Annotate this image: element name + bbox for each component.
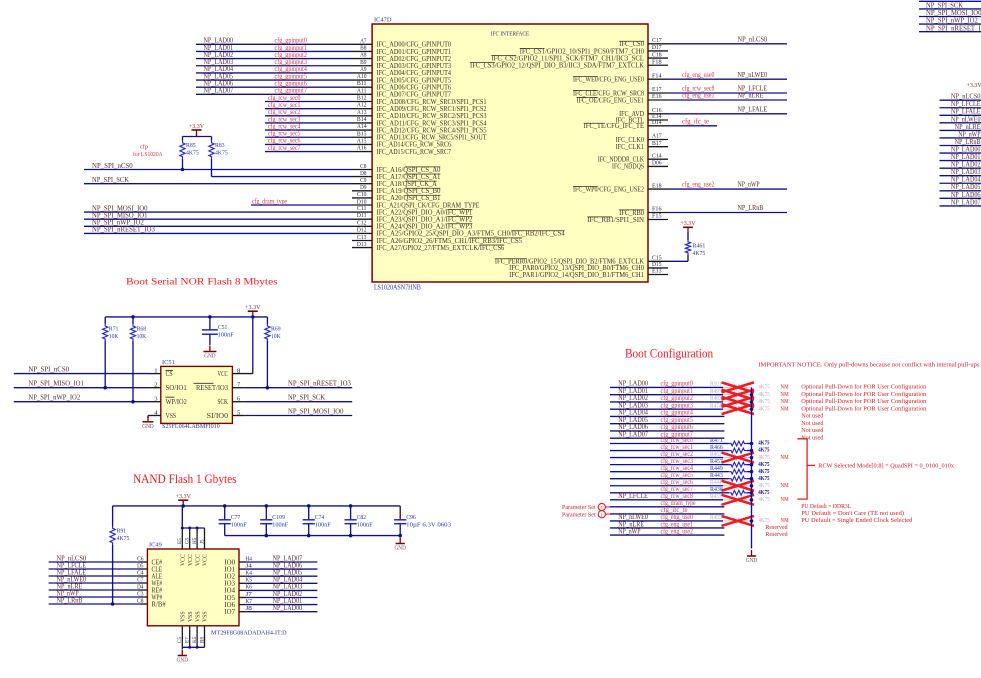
wire net NP_SPI_nWP_IO2 to IC51 pin 3 (junction R68) [14,341,161,404]
boot-config row net NP_nWP cfg_eng_use2 (Reserved) [610,527,788,538]
svg-text:Parameter Set: Parameter Set [562,504,596,511]
svg-text:10K: 10K [271,333,281,340]
wire net NP_LFALE to IC49 pin C4 (ALE) [49,568,163,580]
svg-text:NP_LAD07: NP_LAD07 [204,87,234,95]
IC47D right pin C14 [648,152,668,159]
wire net NP_nLRE to IC49 pin D4 (RE#) [49,582,163,594]
svg-text:NP_LRnB: NP_LRnB [738,204,764,212]
svg-text:D14: D14 [652,119,662,126]
wire net NP_LAD06 from IC49 pin J4 (IO1) [224,561,317,573]
wire net cfg_rcw_sec1 to IC47D pin A12 [265,101,372,109]
power label +3.3V (far right, clipped) [967,82,981,89]
wire +3.3V rail (NOR) [105,315,267,329]
svg-text:D8: D8 [360,170,367,177]
resistor R85 4K75 [180,141,200,159]
capacitor C77 100nF [219,506,247,536]
IC47D right pin C16 net NP_LFALE [648,105,787,114]
wire R85 bottom to NP_SPI_nCS0 net with junction [181,159,185,171]
svg-text:C96: C96 [406,514,416,521]
svg-text:+3.3V: +3.3V [680,220,696,227]
svg-text:J5: J5 [199,539,205,544]
boot-config row net cfg_rcw_sec3 resistor R457 [610,457,770,468]
svg-text:K7: K7 [246,598,253,605]
pin stub IC47D C10 [352,191,372,198]
svg-text:VCC: VCC [217,370,228,378]
wire net NP_LAD03 / cfg_gpinput3 to IC47D pin B9 [196,58,372,66]
svg-text:GND: GND [746,558,758,564]
svg-text:C17: C17 [652,37,662,44]
svg-text:VSS: VSS [195,611,201,622]
capacitor C51 100nF [202,324,234,345]
svg-text:A17: A17 [652,133,662,140]
svg-text:K5: K5 [246,577,253,584]
svg-text:4K75: 4K75 [117,535,130,542]
svg-text:for LS1020A: for LS1020A [133,151,163,158]
svg-text:Boot Serial NOR Flash 8 Mbytes: Boot Serial NOR Flash 8 Mbytes [126,277,278,288]
pull-down bus wire to ground [750,387,754,548]
wire net cfg_rcw_sec0 to IC47D pin B12 [265,94,372,102]
svg-text:RESET/IO3: RESET/IO3 [196,384,228,392]
pin stub IC47D E13 [648,268,668,275]
svg-text:J8: J8 [246,605,253,612]
svg-text:VCC: VCC [195,554,201,566]
svg-text:4K75: 4K75 [758,398,770,405]
wire net NP_LAD07 from IC49 pin H4 (IO0) [224,554,317,566]
svg-text:4K75: 4K75 [758,475,770,482]
boot-config row net NP_LAD00 cfg_gpinput0 resistor R501 NM [610,380,927,393]
svg-text:B17: B17 [652,140,662,147]
svg-text:4K75: 4K75 [758,447,770,454]
svg-text:C11: C11 [357,205,367,212]
svg-text:C10: C10 [357,191,367,198]
svg-text:A9: A9 [360,66,367,73]
svg-text:NP_nLWE0: NP_nLWE0 [738,71,768,79]
svg-text:100nF: 100nF [357,521,373,528]
IC47D right pin D06 [648,160,668,167]
svg-text:A10: A10 [357,73,367,80]
IC51 pin 8 VCC wire to +3.3V column [232,317,252,375]
svg-text:R462: R462 [710,451,722,458]
svg-text:F16: F16 [652,206,662,213]
IC47D right pin names column [470,40,644,224]
wire net cfg_dram_type to IC47D pin D10 [251,197,372,205]
ground symbol at pull-down bus [746,550,758,564]
boot-config row net NP_nLRE cfg_eng_use1 (Reserved) [610,520,788,531]
wire net NP_nWP to IC49 pin C3 (WP#) [49,589,163,601]
wire R91 bottom to NP_LRnB net with junction [111,545,115,606]
svg-text:F15: F15 [652,213,662,220]
boot-config row net cfg_rcw_sec6 resistor R444 NM [610,478,789,491]
svg-text:4K75: 4K75 [758,454,770,461]
svg-text:+3.3V: +3.3V [189,123,205,130]
wire net NP_SPI_MOSI_IO0 to IC47D pin C11 [84,204,372,212]
svg-text:IMPORTANT NOTICE: Only pull-do: IMPORTANT NOTICE: Only pull-downs becaus… [758,362,979,369]
IC47D right pin E18 net NP_nWP cfg cfg_eng_use2 [648,181,787,190]
svg-text:D06: D06 [652,160,662,167]
wire net NP_SPI_MOSI_IO0 from IC51 pin 5 [232,407,352,416]
svg-text:D17: D17 [652,44,662,51]
svg-text:R461: R461 [693,242,706,249]
svg-text:IFC_NDDQS: IFC_NDDQS [612,163,644,171]
svg-text:NM: NM [780,517,788,524]
IC47D right pin C17 net NP_nLCS0 [648,35,787,44]
far-right net stack: NP_nLCS0..NP_LAD07 wires (clipped) [940,93,981,207]
wire net NP_LAD00 from IC49 pin J8 (IO7) [224,604,317,616]
svg-text:C3: C3 [137,590,144,597]
svg-text:SCK: SCK [217,398,228,406]
svg-text:IC47D: IC47D [374,17,392,24]
svg-text:C82: C82 [357,514,367,521]
svg-text:B15: B15 [357,130,367,137]
svg-text:NP_nWP: NP_nWP [618,527,640,535]
wire net NP_SPI_MISO_IO1 to IC51 pin 2 (junction R71) [14,341,161,390]
boot-config row net cfg_dram_type (PU Default = DDR3L) [610,499,851,510]
svg-text:R449: R449 [710,465,723,472]
boot-config row net cfg_ifc_te (PU Default = Don't Care) [610,506,904,517]
svg-text:IFC_PAR1/GPIO2_14/QSPI_DIO_B1/: IFC_PAR1/GPIO2_14/QSPI_DIO_B1/FTM6_CH1 [509,271,644,279]
svg-text:K5: K5 [192,636,198,643]
boot-config row net cfg_rcw_sec4 resistor R449 [610,464,770,475]
svg-text:R457: R457 [710,458,723,465]
IC IC47D LS1020A IFC interface block [372,17,648,292]
power symbol +3.3V for R461 [680,220,696,233]
power symbol +3.3V (NOR section) [245,304,261,317]
svg-text:100nF: 100nF [231,521,247,528]
svg-text:cfg_eng_use2: cfg_eng_use2 [682,181,715,189]
svg-text:100nF: 100nF [218,332,234,339]
svg-text:4K75: 4K75 [758,468,770,475]
svg-text:4K75: 4K75 [186,150,199,157]
IC51 pin names [166,370,229,420]
wire net NP_LAD04 from IC49 pin K5 (IO3) [224,576,317,588]
svg-text:VCC: VCC [188,554,194,566]
svg-text:R8: R8 [199,637,205,643]
svg-text:D9: D9 [360,184,367,191]
svg-text:GND: GND [204,353,216,360]
wire net NP_SPI_SCK to IC47D pin C9 [84,176,372,184]
svg-text:NM: NM [780,398,788,405]
IC47D right pin F16 net NP_LRnB [648,204,787,213]
svg-text:IC49: IC49 [149,542,162,549]
section title: Boot Configuration [625,347,714,361]
svg-text:cfp: cfp [140,144,148,151]
svg-text:C8: C8 [137,597,144,604]
svg-text:R85: R85 [186,142,196,149]
svg-text:cfg_eng_use0: cfg_eng_use0 [682,71,715,79]
svg-text:SI/IO0: SI/IO0 [207,412,229,420]
svg-text:R69: R69 [271,326,281,333]
section title: NAND Flash 1 Gbytes [133,472,237,486]
svg-text:4K75: 4K75 [758,482,770,489]
svg-text:VSS: VSS [188,611,194,622]
boot-config row net cfg_rcw_sec2 resistor R462 NM [610,450,789,463]
wire net NP_SPI_nRESET_IO3 to IC47D pin D12 [84,226,372,234]
boot-config row net NP_LAD04 cfg_gpinput4 [610,409,824,420]
svg-text:E13: E13 [652,268,662,275]
svg-text:Not used: Not used [801,413,824,420]
capacitor C109 100nF [260,506,288,536]
svg-text:R474: R474 [710,402,722,409]
boot-config row net NP_LAD02 cfg_gpinput2 resistor R483 NM [610,394,927,407]
svg-text:A8: A8 [360,52,367,59]
svg-text:NM: NM [780,454,788,461]
section title: Boot Serial NOR Flash 8 Mbytes [126,277,278,288]
IC47D right pin E17 net NP_LFCLE cfg cfg_rcw_sec8 [648,85,787,94]
svg-text:R444: R444 [710,479,722,486]
svg-text:H4: H4 [246,555,253,562]
svg-text:R497: R497 [710,388,722,395]
svg-text:Not used: Not used [801,427,824,434]
wire R83 bottom to IC47D pin D8 [212,159,373,177]
svg-text:NAND Flash 1 Gbytes: NAND Flash 1 Gbytes [133,472,237,486]
svg-text:NP_LFALE: NP_LFALE [738,105,768,113]
svg-text:+3.3V: +3.3V [967,82,981,89]
svg-text:4K75: 4K75 [758,517,770,524]
resistor R71 10K [103,324,119,341]
boot-config row net NP_LAD07 cfg_gpinput7 [610,430,824,441]
svg-text:C8: C8 [360,163,367,170]
IC47D right pin A17 [648,133,668,140]
IC47D right pin D17 [648,44,668,51]
svg-text:C74: C74 [315,514,325,521]
svg-text:IFC INTERFACE: IFC INTERFACE [491,31,529,38]
wire net NP_SPI_nWP_IO2 to IC47D pin C12 [84,219,372,227]
svg-text:NP_SPI_nWP_IO2: NP_SPI_nWP_IO2 [28,394,80,402]
svg-text:4K75: 4K75 [758,391,770,398]
svg-text:F18: F18 [652,58,662,65]
wire net cfg_rcw_sec2 to IC47D pin A13 [265,108,372,116]
svg-text:S25FL064LABMFI010: S25FL064LABMFI010 [162,423,220,430]
svg-text:Reserved: Reserved [765,524,788,531]
IC49 VSS bottom pin stubs to ground [177,626,206,664]
svg-text:RCW Selected Mode[0:8] = QuadS: RCW Selected Mode[0:8] = QuadSPI = 0_010… [818,462,954,469]
svg-text:4K75: 4K75 [215,150,228,157]
IC47D bottom-right pin names (IFC_PERR0, IFC_PAR0, IFC_PAR1) [495,258,645,279]
resistor R91 4K75 [110,506,130,545]
svg-text:R483: R483 [710,395,722,402]
IC47D left pin names column (IFC_A16..IFC_A27) [377,166,566,252]
svg-text:R438: R438 [710,486,723,493]
svg-text:Optional Pull-Down for POR Use: Optional Pull-Down for POR User Configur… [801,398,927,405]
svg-text:NP_LAD00: NP_LAD00 [273,604,303,612]
IC47D right pin F15 [648,213,668,220]
wire +3.3V rail (NAND) [113,504,401,508]
svg-text:G5: G5 [185,537,191,544]
IC47D right pin F18 [648,58,668,65]
wire net NP_LFCLE to IC49 pin D5 (CLE) [49,561,163,573]
svg-text:A11: A11 [357,87,367,94]
IC47D right pin D14 cfg cfg_ifc_te [648,117,717,126]
IC51 pin 4 VSS to ground [142,409,161,430]
svg-text:4K75: 4K75 [758,461,770,468]
svg-text:A13: A13 [357,109,367,116]
IC49 VSS pin names (rotated) [181,611,209,622]
Parameter Set callout 1 (cfg_dram_type) [562,503,610,511]
wire net NP_LAD07 / cfg_gpinput7 to IC47D pin A11 [196,87,372,95]
wire net cfg_rcw_sec5 to IC47D pin B15 [265,130,372,138]
svg-text:WP/IO2: WP/IO2 [166,398,188,406]
power symbol +3.3V (NAND section) [176,493,192,506]
svg-text:10K: 10K [137,333,147,340]
svg-text:NP_SPI_nCS0: NP_SPI_nCS0 [28,366,69,374]
svg-text:1: 1 [601,505,604,510]
svg-text:C7: C7 [137,576,144,583]
wire net NP_LAD02 / cfg_gpinput2 to IC47D pin A8 [196,51,372,59]
svg-text:4K75: 4K75 [758,496,770,503]
IC47D right pin E16 net NP_nLRE cfg cfg_eng_use1 [648,92,787,101]
boot-config row net NP_LAD03 cfg_gpinput3 resistor R474 NM [610,401,927,414]
svg-text:SO/IO1: SO/IO1 [166,384,188,392]
svg-text:R466: R466 [710,444,723,451]
svg-text:IFC_CS3/GPIO2_12/QSPI_DIO_B3/I: IFC_CS3/GPIO2_12/QSPI_DIO_B3/IIC3_SDA/FT… [470,62,644,70]
svg-text:D13: D13 [357,241,367,248]
wire net NP_SPI_nCS0 to IC47D pin C8 [84,162,372,170]
svg-text:NP_SPI_nRESET_IO3: NP_SPI_nRESET_IO3 [926,24,981,32]
IC47D right pin B17 [648,140,668,147]
svg-text:1: 1 [601,512,604,517]
svg-text:NP_nLCS0: NP_nLCS0 [738,35,768,43]
svg-text:NM: NM [780,405,788,412]
svg-text:NP_SPI_nRESET_IO3: NP_SPI_nRESET_IO3 [288,380,351,388]
note IMPORTANT NOTICE [758,362,979,369]
svg-text:GND: GND [395,546,407,552]
svg-text:NM: NM [780,391,788,398]
svg-text:cfg_ifc_te: cfg_ifc_te [682,117,709,125]
wire net NP_LAD01 / cfg_gpinput1 to IC47D pin B8 [196,44,372,52]
svg-text:R443: R443 [710,472,723,479]
svg-text:NP_SPI_nRESET_IO3: NP_SPI_nRESET_IO3 [92,226,155,234]
svg-text:Optional Pull-Down for POR Use: Optional Pull-Down for POR User Configur… [801,405,927,412]
svg-text:A14: A14 [357,123,367,130]
wire net cfg_rcw_sec4 to IC47D pin A14 [265,122,372,130]
svg-text:J4: J4 [246,562,253,569]
capacitor C74 100nF [303,506,331,536]
wire net NP_SPI_nRESET_IO3 from IC51 pin 7 (junction R69) [232,341,352,390]
ground symbol below C96 [395,538,407,552]
boot-config row net NP_LAD06 cfg_gpinput6 [610,423,824,434]
ground symbol below C51 [203,346,216,360]
resistor R69 10K [265,324,281,341]
boot-config row net NP_LAD05 cfg_gpinput5 [610,416,824,427]
top-right net stack: NP_SPI_SCK / MOSI / nWP / nRESET wires (clipped) [919,1,981,32]
svg-text:1: 1 [154,367,157,374]
svg-text:NP_LAD07: NP_LAD07 [951,198,981,206]
svg-text:B12: B12 [357,95,367,102]
wire net NP_LAD00 / cfg_gpinput0 to IC47D pin A7 [196,37,372,45]
wire R461 bottom to IC47D pin C15 [648,255,688,262]
svg-text:C77: C77 [231,514,241,521]
resistor R68 10K [130,324,146,341]
svg-text:VSS: VSS [203,611,209,622]
boot-config row net NP_nLWE0 cfg_eng_use0 resistor R455 NM [610,513,913,526]
svg-text:NP_nWP: NP_nWP [738,181,760,189]
wire net NP_LAD02 from IC49 pin J7 (IO5) [224,590,317,602]
svg-text:4K75: 4K75 [758,405,770,412]
wire net NP_SPI_SCK from IC51 pin 6 [232,394,352,403]
svg-text:D5: D5 [137,562,144,569]
boot-config row net NP_LFCLE cfg_rcw_sec8 resistor R433 NM [610,492,789,505]
boot-config row net cfg_rcw_sec5 resistor R443 [610,471,770,482]
svg-text:Not used: Not used [801,434,824,441]
svg-text:+3.3V: +3.3V [176,493,192,500]
wire net NP_SPI_MISO_IO1 to IC47D pin D11 [84,212,372,220]
svg-text:NP_nLRE: NP_nLRE [738,92,764,100]
svg-text:E16: E16 [652,93,662,100]
svg-text:R83: R83 [215,142,225,149]
junction dots on +3.3V rail at caps [223,504,353,508]
svg-text:C13: C13 [357,234,367,241]
boot-config row net cfg_rcw_sec0 resistor R471 [610,436,770,447]
svg-text:A7: A7 [360,37,367,44]
svg-text:cfg_rcw_sec7: cfg_rcw_sec7 [268,144,301,152]
svg-text:+3.3V: +3.3V [245,304,261,311]
svg-text:NP_SPI_nCS0: NP_SPI_nCS0 [92,162,133,170]
svg-text:C6: C6 [137,555,144,562]
svg-text:2: 2 [154,382,157,389]
svg-text:NM: NM [780,482,788,489]
svg-text:R471: R471 [710,437,723,444]
svg-text:VCC: VCC [203,554,209,566]
svg-text:R71: R71 [109,326,119,333]
svg-text:GND: GND [177,658,189,664]
svg-text:VSS: VSS [181,611,187,622]
svg-text:VSS: VSS [166,412,177,420]
IC49 VCC pin names (rotated) [181,554,209,566]
svg-text:B9: B9 [360,59,367,66]
wire net NP_nLWE0 to IC49 pin C7 (WE#) [49,575,163,587]
svg-text:R501: R501 [710,381,722,388]
wire net NP_LAD06 / cfg_gpinput6 to IC47D pin B11 [196,80,372,88]
svg-text:K4: K4 [246,570,253,577]
boot-config row net cfg_rcw_sec1 resistor R466 [610,443,770,454]
svg-text:cfg_eng_use1: cfg_eng_use1 [682,92,715,100]
svg-text:NP_SPI_SCK: NP_SPI_SCK [92,176,129,184]
svg-text:C9: C9 [360,177,367,184]
wire net cfg_rcw_sec7 to IC47D pin A16 [265,144,372,152]
svg-text:VCC: VCC [181,554,187,566]
wire net cfg_rcw_sec6 to IC47D pin A15 [265,137,372,145]
svg-text:B11: B11 [357,80,367,87]
wire net NP_LAD01 from IC49 pin K7 (IO6) [224,597,317,609]
svg-text:R/B#: R/B# [152,600,167,608]
svg-text:D11: D11 [357,212,367,219]
svg-text:NP_LRnB: NP_LRnB [57,596,83,604]
resistor R83 4K75 [209,141,229,159]
svg-text:A12: A12 [357,102,367,109]
IC49 VCC top pin stubs and wire from +3.3V column [177,506,205,549]
pin stub IC47D D9 [352,184,372,191]
svg-text:MT29F8G08ADADAH4-IT:D: MT29F8G08ADADAH4-IT:D [211,629,287,636]
IC U51: IC51 S25FL064L NOR flash [161,359,233,430]
IC47D right pin C18 [648,51,668,58]
svg-text:C4: C4 [137,569,144,576]
svg-text:C5: C5 [177,637,183,643]
pin stub IC47D D13 [352,241,372,248]
svg-text:NP_SPI_MOSI_IO0: NP_SPI_MOSI_IO0 [288,407,344,415]
svg-text:D12: D12 [357,226,367,233]
svg-text:D4: D4 [137,583,144,590]
svg-text:E17: E17 [652,86,662,93]
svg-text:F14: F14 [652,72,662,79]
svg-text:4K75: 4K75 [758,440,770,447]
svg-text:A15: A15 [357,137,367,144]
pin stub IC47D C13 [352,234,372,241]
wire cap bottom rail to GND [225,534,402,538]
pin stub IC47D D15 [648,261,668,268]
svg-text:NP_SPI_SCK: NP_SPI_SCK [288,394,325,402]
wire net cfg_rcw_sec3 to IC47D pin B14 [265,115,372,123]
svg-text:C109: C109 [272,514,285,521]
